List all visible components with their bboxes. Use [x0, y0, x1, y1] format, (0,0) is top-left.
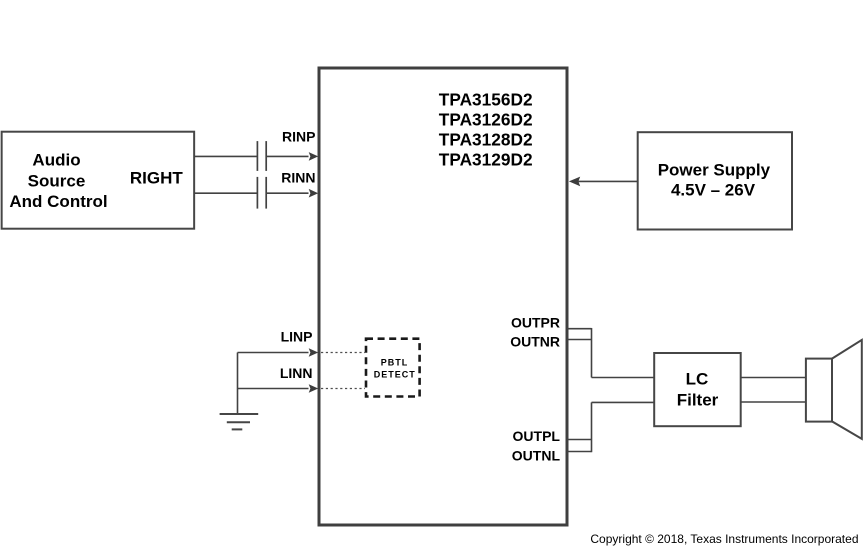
svg-text:4.5V – 26V: 4.5V – 26V — [671, 181, 756, 200]
wire RINN into amp with arrowhead — [267, 189, 318, 198]
svg-text:LINP: LINP — [281, 329, 313, 345]
svg-text:Filter: Filter — [677, 391, 719, 410]
wire OUTNR stub — [567, 339, 592, 341]
block PBTL DETECT (dashed) — [366, 339, 420, 397]
wire bus to LC filter (bottom) — [592, 401, 655, 403]
wire OUTNL stub — [567, 451, 592, 453]
svg-text:OUTNL: OUTNL — [512, 448, 561, 464]
svg-text:DETECT: DETECT — [374, 370, 416, 380]
block LC Filter — [654, 353, 741, 426]
svg-text:TPA3128D2: TPA3128D2 — [439, 130, 533, 150]
wire bus to LC filter (top) — [592, 377, 655, 379]
svg-text:TPA3156D2: TPA3156D2 — [439, 90, 533, 110]
svg-text:And Control: And Control — [9, 192, 107, 211]
svg-text:LC: LC — [686, 369, 709, 388]
wire power supply to amp with arrowhead — [569, 177, 638, 187]
ground — [220, 414, 259, 429]
wire OUTPL stub — [567, 439, 592, 441]
svg-text:Power Supply: Power Supply — [658, 161, 771, 180]
svg-text:PBTL: PBTL — [381, 358, 409, 368]
amplifier block TPA31xxD2 — [319, 68, 567, 525]
svg-text:OUTPR: OUTPR — [511, 315, 560, 331]
svg-text:RIGHT: RIGHT — [130, 169, 184, 188]
svg-text:Copyright © 2018, Texas Instru: Copyright © 2018, Texas Instruments Inco… — [590, 532, 858, 546]
svg-text:Audio: Audio — [32, 150, 80, 169]
wire OUTPR stub — [567, 328, 592, 330]
wire RINP — [194, 155, 257, 157]
wire right-channel bus vertical — [591, 328, 593, 378]
wire RINN — [194, 192, 257, 194]
wire LINP with arrowhead — [238, 348, 319, 357]
dotted wire LINP to PBTL detect — [321, 352, 365, 354]
capacitor RINN coupling — [257, 177, 266, 209]
svg-text:LINN: LINN — [280, 365, 313, 381]
svg-text:OUTNR: OUTNR — [510, 333, 560, 349]
wire RINP into amp with arrowhead — [267, 152, 318, 161]
svg-text:RINP: RINP — [282, 129, 315, 145]
wire LC filter to speaker (top) — [741, 377, 806, 379]
svg-text:RINN: RINN — [281, 169, 315, 185]
wire LINN with arrowhead — [238, 384, 319, 393]
dotted wire LINN to PBTL detect — [321, 388, 365, 390]
wire LC filter to speaker (bottom) — [741, 401, 806, 403]
capacitor RINP coupling — [257, 141, 266, 171]
wire left-channel bus vertical — [591, 402, 593, 452]
wire LIN vertical to ground — [237, 353, 239, 415]
speaker — [806, 340, 862, 439]
block Audio Source And Control — [2, 132, 195, 229]
svg-text:TPA3126D2: TPA3126D2 — [439, 110, 533, 130]
block Power Supply — [638, 132, 792, 229]
svg-text:Source: Source — [28, 171, 86, 190]
svg-text:OUTPL: OUTPL — [513, 428, 561, 444]
svg-text:TPA3129D2: TPA3129D2 — [439, 150, 533, 170]
